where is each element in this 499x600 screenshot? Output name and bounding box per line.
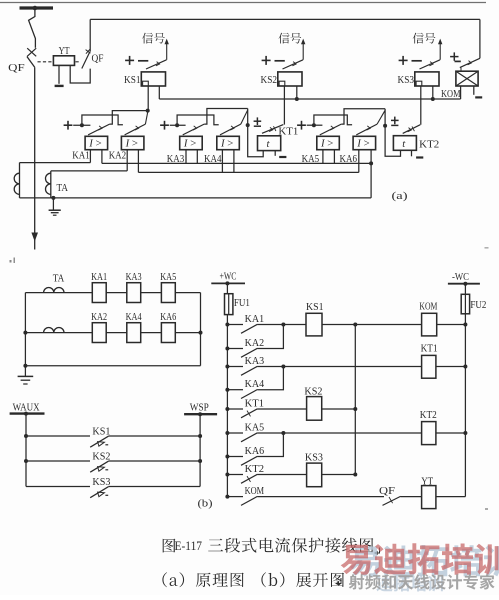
svg-text:KS3: KS3 [305,452,323,463]
wire rung KA1 [257,324,306,326]
wire KS2 right pin down [296,86,298,99]
timer KT1 coil box [258,136,281,151]
wire KA4 right pin [233,150,235,173]
node KT2-feeder junction [463,431,467,435]
wire trip bus down right [479,19,481,58]
mech link dashes QF-YT [38,61,53,63]
contact KA4 slant (b) [241,390,257,399]
svg-text:KS3: KS3 [92,477,110,488]
wire rung from feeder [227,408,243,410]
svg-text:KA2: KA2 [109,151,127,162]
wire KT1 right pin [274,151,276,156]
node plus junction [312,123,316,127]
output relay KOM coil box [456,71,478,86]
node feeder junction [225,388,229,392]
CT TA (b) winding 2 [25,332,92,334]
svg-text:KA1: KA1 [72,151,90,162]
KS3 flag tab [416,81,422,86]
node KS2-rail junction [295,97,299,101]
wire parallel loop [177,115,219,125]
relay KA4 box [217,136,240,149]
wire KA6 output link [377,110,385,124]
relay KA1 coil box (b) [92,283,106,303]
wire KOM left pin down [460,86,462,99]
scan artifact mark 1 [10,260,12,263]
node WSP junction [198,412,202,416]
label xinhao signal KS3 [413,33,436,44]
KS3 minus mark [412,60,422,62]
node rail top junction [353,323,357,327]
wire KS1 to signal arrow [166,44,168,60]
contact KS3 slant [90,487,108,498]
wire left feeder [226,315,228,497]
relay KS3 coil box (b) [307,463,322,487]
wire row [106,332,127,334]
contact KA6 slant (b) [241,456,257,465]
node plus junction [80,123,84,127]
relay KA6 box [353,136,376,149]
svg-text:(a): (a) [392,190,408,202]
svg-text:(b): (b) [198,498,213,510]
node KS2-rail junction (b) [353,407,357,411]
wire KA2 right pin [137,150,139,173]
svg-text:KS1: KS1 [92,426,110,437]
wire rung KA4 up [257,367,283,390]
wire KS row [26,435,90,437]
node feeder junction [225,455,229,459]
svg-text:KA6: KA6 [160,312,176,323]
wire rung from feeder [227,348,243,350]
KS1 contact slant [146,60,167,69]
svg-text:KS1: KS1 [306,302,324,313]
wire KS1 to KOM coil [322,324,422,326]
wire trip bus [90,18,480,20]
svg-text:KA2: KA2 [245,338,265,349]
wire WSP rail [199,414,201,486]
node feeder junction [225,365,229,369]
wire KT2 right pin [411,150,413,156]
wire KS2 left pin down to KT1 contact [283,86,285,125]
wire return right down [370,163,372,198]
svg-text:KA2: KA2 [91,312,107,323]
KS1 flag tab [143,81,149,86]
node KA3/KA4 output junction [246,123,250,127]
svg-text:KT2: KT2 [419,139,439,150]
watermark shadow 2 [376,576,443,592]
node plus junction [175,123,179,127]
svg-text:KT2: KT2 [420,410,437,421]
svg-text:FU1: FU1 [234,298,250,309]
bus +WC bar [211,282,245,284]
svg-text:KS2: KS2 [261,75,278,86]
feeder arrow [31,233,38,242]
KS2 flag tab [279,81,285,86]
wire KS3 left pin down to KT2 contact [420,86,422,125]
wire rung from feeder [227,456,243,458]
svg-text:KA6: KA6 [245,446,265,457]
wire rung KA6 up [257,433,283,457]
scan artifact mark 3 [485,247,489,249]
node KA3-KA4 junction [281,365,285,369]
wire KA5 right pin [333,150,335,163]
node feeder junction [225,407,229,411]
node return-ground junction [51,196,55,200]
svg-text:TA: TA [57,183,69,194]
disconnector blade on feeder [29,8,36,48]
contact KA1 slant (b) [241,324,257,333]
node feeder junction [225,323,229,327]
wire plus to contacts [170,124,186,126]
aux contact QF [82,52,90,69]
wire KA6 right pin [370,150,372,163]
wire KS1 right pin down [158,86,160,99]
watermark subtitle [349,574,495,590]
wire phase A chain [102,162,371,164]
svg-text:I >: I > [220,138,233,150]
svg-text:TA: TA [53,274,65,285]
KT1 contact ticks [269,127,273,131]
KT2 plusminus mark [391,119,399,121]
signal relay KS2 coil box [278,72,302,86]
contact KA4 slant [220,124,241,135]
wire feeder down [34,67,36,249]
contact KOM slant (b) [241,496,257,505]
node WSP-KS1 junction [198,434,202,438]
contact KA4 arrow tick [230,126,234,130]
wire phase C [51,170,127,172]
relay KA3 coil box (b) [127,283,141,303]
relay KA5 coil box (b) [161,283,175,303]
wire phase C chain [138,171,358,173]
wire KT1 coil to feeder [436,366,466,368]
node WAUX junction [24,412,28,416]
svg-text:+WC: +WC [220,272,237,283]
svg-text:KA4: KA4 [245,379,265,390]
wire rail (b) [354,325,356,475]
contact KA6 arrow tick [367,126,371,130]
label xinhao signal KS1 [142,33,165,44]
wire rung from feeder [227,474,243,476]
scan artifact mark 2 [485,508,488,510]
node -WC junction [463,282,467,286]
contact KS3 arrow [98,492,105,497]
wire WAUX rail [25,414,27,487]
contact KT2 slant (b) [241,474,257,483]
wire plus to contacts [307,124,323,126]
KS2 contact arrow tick [292,62,296,66]
relay KOM coil box (b) [422,313,437,336]
wire KA5 output [341,109,385,124]
timer KT2 coil box (b) [422,422,436,445]
timer KT1 contact slant [262,125,283,134]
wire KA6 left pin [358,150,360,172]
wire YT right pin to QF aux [70,65,90,83]
node WAUX-KS2 junction [24,459,28,463]
wire KA1 output [110,111,148,125]
top border line [0,2,486,4]
node WSP-KS2 junction [198,459,202,463]
contact KA5 slant [320,124,342,135]
contact KS2 slant [90,461,108,472]
KS1 plus mark [125,59,134,61]
svg-text:I >: I > [88,138,101,150]
svg-text:KA3: KA3 [126,272,142,283]
fuse FU2 [461,294,469,314]
svg-text:KA4: KA4 [126,312,142,323]
CT TA winding 1 [19,163,21,198]
svg-text:-WC: -WC [452,272,469,283]
wire rung from feeder [227,324,243,326]
node feeder junction [225,495,229,499]
svg-text:KS1: KS1 [124,75,141,86]
relay KA1 box [85,136,108,149]
wire output down to KT2 coil [385,109,400,157]
node WAUX-KS1 junction [24,434,28,438]
node feeder junction [225,431,229,435]
signal relay KS1 coil box [141,72,165,86]
node KOM-feeder junction [463,323,467,327]
node KA5-KA6 junction [281,431,285,435]
svg-text:KS3: KS3 [398,75,415,86]
relay KS2 coil box (b) [307,397,322,421]
contact KA1 slant [88,124,110,135]
watermark shadow [350,545,499,577]
svg-text:I >: I > [125,138,138,150]
watermark text [341,543,499,575]
mech link dash YT-QFaux [76,61,81,63]
wire parallel loop [314,115,352,125]
contact QF slant (b) [383,496,401,505]
wire KA3 output [204,109,248,125]
timer KT2 coil box [393,136,416,151]
caption subtitle [162,572,243,587]
busbar [20,6,54,9]
KS3 plus mark [399,59,408,61]
wire QF to YT coil [401,496,422,498]
wire bottom return (b-TA) [25,365,200,367]
contact KT1 slant (b) [241,409,257,418]
fuse FU1 [225,294,233,315]
wire rung KT1 [257,408,306,410]
wire KS3 to signal arrow [439,44,441,60]
node KS3-rail junction [431,97,435,101]
svg-text:KOM: KOM [419,301,437,312]
wire KA5 left pin [322,150,324,163]
node KA1-KA2 junction [281,323,285,327]
signal arrow KS3 [438,39,442,45]
ground (b) [24,366,26,376]
KOM contact arrow tick [468,61,472,65]
contact KA3 arrow tick [193,126,197,130]
wire KOM coil to feeder [437,324,466,326]
wire row [106,292,127,294]
KA3/KA4 plus mark [160,124,169,126]
wire rung from feeder [227,366,243,368]
svg-text:KS2: KS2 [304,386,322,397]
wire right feeder [464,314,466,497]
node left rail junction [23,331,27,335]
wire parallel loop [82,115,123,125]
contact KA2 arrow tick [135,126,139,130]
timer KT2 contact slant [403,125,421,134]
wire KA4 output link [241,110,248,124]
wire KT2 coil to feeder [436,432,466,434]
wire KA2 output link [145,112,147,124]
wire KS1 left pin down [147,86,149,111]
node busbar junction [33,6,38,11]
contact KS1 slant [90,436,108,447]
wire KOM right pin down [473,86,475,95]
contact KT2 delay tick [247,476,251,482]
wire KS2 to rail [322,408,356,410]
wire YT coil to feeder [436,496,466,498]
svg-text:I >: I > [183,138,196,150]
wire rung KA5 [257,432,421,434]
wire row to right [175,332,200,334]
KS1 minus mark [138,60,148,62]
wire left feeder top [226,283,228,293]
svg-text:KT1: KT1 [245,398,265,409]
wire return [20,197,372,199]
wire KS3 right pin down [432,86,434,99]
wire rung KT2 [257,474,306,476]
wire KS row [26,460,90,462]
contact KA2 slant (b) [241,348,257,357]
svg-text:KOM: KOM [245,486,265,497]
wire row to right [175,292,200,294]
relay KA2 box [121,136,143,149]
ground (a) [52,198,54,210]
wire rung KOM [257,496,384,498]
svg-text:KA1: KA1 [91,272,107,283]
svg-text:KA3: KA3 [245,356,265,367]
svg-text:KA5: KA5 [245,422,265,433]
node KS3-rail junction (b) [353,473,357,477]
svg-text:KT1: KT1 [421,344,438,355]
KA5/KA6 plus mark [297,124,306,126]
timer KT1 coil box (b) [422,355,436,378]
KS1 contact arrow tick [156,62,160,66]
wire common negative rail [159,98,460,100]
KT2 minus terminal [416,156,423,158]
caption return mark 1 [375,548,380,554]
YT minus terminal [55,85,64,87]
KA1/KA2 plus mark [64,124,73,126]
node KT1-feeder junction [463,365,467,369]
svg-text:KS2: KS2 [92,451,110,462]
wire KA3 left pin [185,150,187,164]
signal arrow KS2 [301,39,305,45]
wire rung KA3 [257,366,421,368]
contact KA5 arrow tick [330,126,334,130]
breaker QF x-mark [27,48,36,56]
node feeder junction [225,473,229,477]
KOM contact slant [460,58,480,67]
relay KA6 coil box (b) [161,323,175,343]
node KA5/KA6 output junction [383,124,387,128]
svg-text:QF: QF [379,486,395,497]
wire KS2 to signal arrow [302,44,304,60]
svg-text:QF: QF [92,53,104,64]
bus WAUX bar [10,412,45,414]
node bottom-left ground junction [23,364,27,368]
bus -WC bar [448,283,480,285]
wire left rail (b-TA) [24,293,26,366]
wire KS row [26,486,90,488]
KOM plus mark [450,56,458,58]
relay KA5 box [317,136,340,149]
relay KA3 box [180,136,203,149]
relay KA2 coil box (b) [92,323,106,343]
relay KS1 coil box (b) [306,313,322,336]
wire rung from feeder [227,496,243,498]
contact KA3 slant (b) [241,366,257,375]
signal relay KS3 coil box [415,72,439,86]
wire KS3 to rail [322,474,356,476]
caption figure title [163,539,176,553]
svg-text:KA1: KA1 [245,314,265,325]
wire row [141,292,162,294]
node chain-return junction [369,161,373,165]
svg-text:FU2: FU2 [470,300,486,311]
wire KA3 right pin [196,150,198,164]
wire right feeder top [464,284,466,295]
breaker QF contact [27,57,35,68]
KS3 contact slant [420,60,441,69]
signal arrow KS1 [165,39,169,45]
KT1 plusminus mark [254,120,262,122]
contact KS1 arrow [98,442,105,447]
aux QF x-mark [86,50,91,54]
node +WC junction [225,281,229,285]
node KA1/KA2 output junction [146,109,150,113]
wire KA4 left pin [221,150,223,173]
KT1 minus terminal [279,156,286,158]
wire rung from feeder [227,389,243,391]
node row2 junction [199,331,203,335]
contact KA3 slant [183,124,205,135]
svg-text:KA5: KA5 [160,272,176,283]
svg-text:KOM: KOM [441,89,461,100]
CT TA winding 2 [50,171,52,198]
wire KOM contact to coil [460,68,462,72]
svg-text:I >: I > [320,138,333,150]
contact KA6 slant [356,124,377,135]
trip coil YT [53,56,74,66]
wire phase A [20,162,91,164]
contact KT1 delay tick [247,411,251,417]
wire KA1 left pin [89,150,91,163]
KT2 contact ticks [408,128,412,132]
contact KA1 arrow tick [98,126,102,130]
wire right loop vertical (b-TA) [200,293,202,366]
wire rung from feeder [227,432,243,434]
caption return mark 2 [336,578,341,584]
relay KA4 coil box (b) [127,323,141,343]
CT TA (b) winding 1 [25,292,92,294]
bus WSP bar [184,413,217,415]
KS2 plus mark [262,59,271,61]
trip coil YT box (b) [422,486,436,509]
node feeder junction [225,347,229,351]
KS3 contact arrow tick [429,62,433,66]
svg-text:E-117: E-117 [175,539,203,553]
wire row [141,332,162,334]
KOM minus mark [455,60,461,62]
contact KA5 slant (b) [241,433,257,442]
contact KS2 arrow [98,467,105,472]
KS2 contact slant [283,60,304,69]
